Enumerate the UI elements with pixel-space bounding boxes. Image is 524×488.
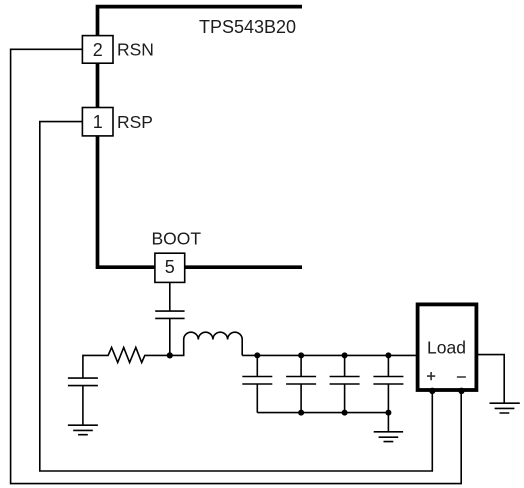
node VOUT junction dot 2 — [298, 352, 304, 358]
wire load right to ground — [478, 355, 505, 404]
capacitor C left — [68, 378, 98, 386]
wire capacitor to switch node — [169, 318, 171, 355]
node load plus terminal dot — [429, 388, 435, 394]
IC TPS543B20 outline — [98, 7, 303, 268]
wire cap to ground — [82, 386, 84, 426]
capacitor CBOOT — [155, 311, 184, 318]
svg-text:1: 1 — [93, 112, 103, 132]
inductor L — [170, 332, 242, 355]
capacitor C2 — [286, 355, 316, 412]
capacitor C3 — [330, 355, 360, 412]
wire boot pin to capacitor — [169, 282, 171, 311]
svg-text:5: 5 — [165, 257, 175, 277]
wire RSP net (pin1 to load plus) — [40, 122, 433, 471]
svg-text:BOOT: BOOT — [152, 229, 202, 249]
wire output rail — [242, 354, 416, 356]
svg-text:RSP: RSP — [117, 112, 153, 132]
pin 1 box — [82, 108, 113, 136]
node GND rail dot 1 — [298, 410, 304, 416]
plus symbol — [427, 372, 435, 380]
resistor R (zigzag) — [83, 347, 170, 378]
node VOUT junction dot 1 — [254, 352, 260, 358]
svg-text:TPS543B20: TPS543B20 — [199, 17, 296, 37]
ground left — [68, 425, 98, 435]
node load minus terminal dot — [458, 388, 464, 394]
wire C4 to ground — [387, 413, 389, 432]
wire bottom rail — [257, 412, 388, 414]
load box U Load — [418, 304, 477, 390]
minus symbol — [457, 376, 466, 378]
svg-text:Load: Load — [427, 338, 466, 358]
wire RSN net (pin2 to load minus) — [11, 49, 462, 483]
node VOUT junction dot 4 — [385, 352, 391, 358]
ground right — [490, 403, 520, 413]
ground output — [374, 432, 403, 442]
node SW junction dot — [167, 352, 173, 358]
node GND rail dot 3 — [385, 410, 391, 416]
node VOUT junction dot 3 — [342, 352, 348, 358]
node GND rail dot 2 — [342, 410, 348, 416]
capacitor C1 — [242, 355, 272, 412]
capacitor C4 — [373, 355, 403, 412]
svg-text:2: 2 — [93, 40, 103, 60]
pin 5 box — [155, 253, 185, 282]
pin 2 box — [82, 36, 113, 64]
svg-text:RSN: RSN — [117, 39, 154, 59]
